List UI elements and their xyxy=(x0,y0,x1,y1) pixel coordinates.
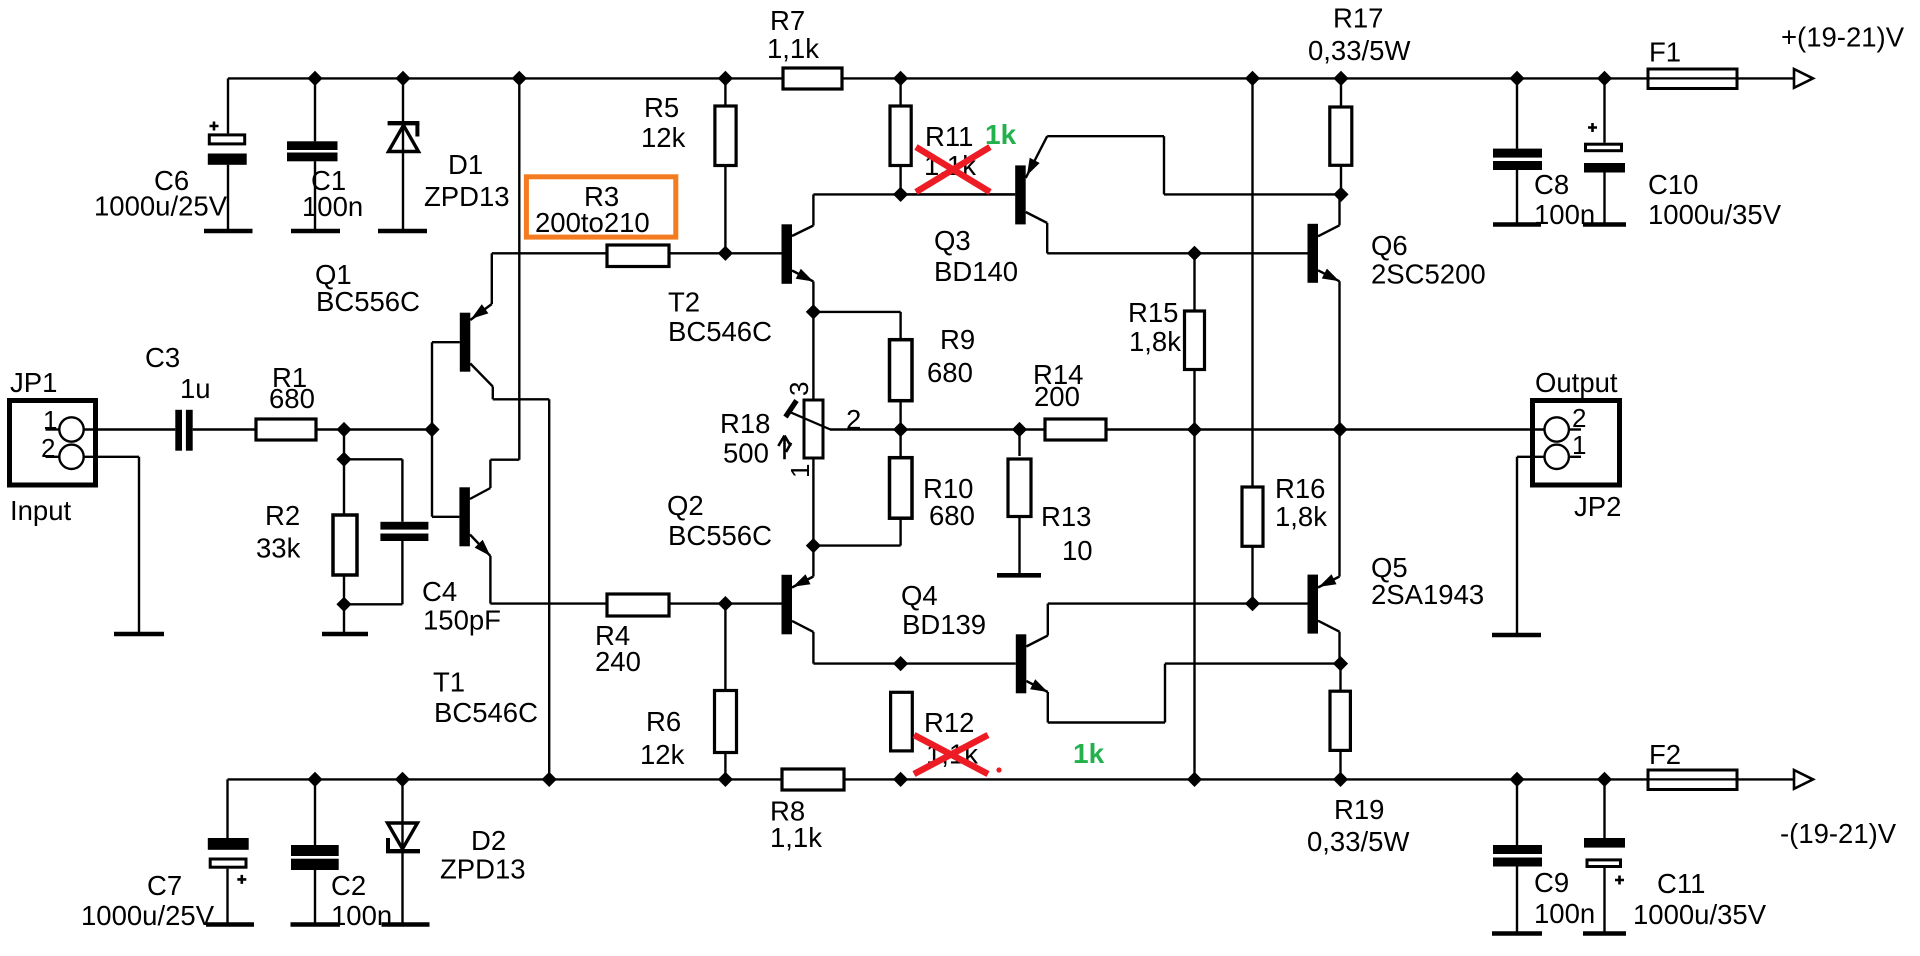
svg-text:680: 680 xyxy=(927,357,973,388)
svg-text:2: 2 xyxy=(1572,403,1586,433)
svg-text:C10: C10 xyxy=(1648,169,1698,200)
svg-text:R9: R9 xyxy=(940,324,975,355)
svg-text:680: 680 xyxy=(269,383,315,414)
svg-text:R7: R7 xyxy=(770,5,805,36)
svg-text:Output: Output xyxy=(1535,367,1618,398)
svg-text:2SC5200: 2SC5200 xyxy=(1371,259,1486,290)
svg-text:1000u/35V: 1000u/35V xyxy=(1633,899,1767,930)
svg-text:1: 1 xyxy=(1572,430,1586,460)
svg-text:R19: R19 xyxy=(1334,794,1384,825)
svg-text:1,8k: 1,8k xyxy=(1275,501,1327,532)
svg-text:1000u/25V: 1000u/25V xyxy=(81,900,215,931)
svg-text:R12: R12 xyxy=(924,707,974,738)
svg-text:200: 200 xyxy=(1034,381,1080,412)
svg-text:100n: 100n xyxy=(1534,199,1595,230)
svg-text:1: 1 xyxy=(785,464,815,478)
svg-text:2: 2 xyxy=(846,404,861,435)
svg-text:R18: R18 xyxy=(720,408,770,439)
svg-text:C9: C9 xyxy=(1534,867,1569,898)
svg-text:C11: C11 xyxy=(1657,868,1705,899)
svg-text:+(19-21)V: +(19-21)V xyxy=(1781,22,1905,53)
svg-text:R5: R5 xyxy=(644,92,679,123)
svg-text:1: 1 xyxy=(43,405,57,435)
svg-text:BC556C: BC556C xyxy=(668,520,772,551)
svg-text:F2: F2 xyxy=(1649,739,1681,770)
svg-text:Q4: Q4 xyxy=(901,580,938,611)
svg-text:10: 10 xyxy=(1062,535,1093,566)
svg-text:R13: R13 xyxy=(1041,501,1091,532)
svg-text:F1: F1 xyxy=(1649,37,1681,68)
svg-text:R15: R15 xyxy=(1128,297,1178,328)
svg-text:680: 680 xyxy=(929,500,975,531)
svg-text:Q6: Q6 xyxy=(1371,230,1408,261)
svg-text:100n: 100n xyxy=(302,191,363,222)
svg-text:BD139: BD139 xyxy=(902,609,986,640)
svg-text:0,33/5W: 0,33/5W xyxy=(1307,826,1409,857)
svg-text:1000u/35V: 1000u/35V xyxy=(1648,199,1782,230)
svg-text:12k: 12k xyxy=(640,739,685,770)
svg-text:150pF: 150pF xyxy=(423,605,501,636)
svg-text:1,1k: 1,1k xyxy=(767,33,819,64)
svg-text:C8: C8 xyxy=(1534,169,1569,200)
svg-text:1000u/25V: 1000u/25V xyxy=(94,191,228,222)
svg-text:-(19-21)V: -(19-21)V xyxy=(1780,818,1897,849)
svg-text:1k: 1k xyxy=(1073,738,1105,769)
svg-text:C2: C2 xyxy=(331,870,366,901)
svg-text:1u: 1u xyxy=(180,373,211,404)
svg-text:BC546C: BC546C xyxy=(668,316,772,347)
svg-text:500: 500 xyxy=(723,438,769,469)
svg-text:100n: 100n xyxy=(331,900,392,931)
svg-text:Q2: Q2 xyxy=(667,490,704,521)
svg-text:C4: C4 xyxy=(422,576,457,607)
svg-text:1,1k: 1,1k xyxy=(770,822,822,853)
svg-text:R16: R16 xyxy=(1275,473,1325,504)
svg-text:3: 3 xyxy=(784,382,814,396)
svg-text:2: 2 xyxy=(41,433,55,463)
svg-text:200to210: 200to210 xyxy=(535,207,650,238)
svg-text:ZPD13: ZPD13 xyxy=(424,181,510,212)
svg-text:240: 240 xyxy=(595,646,641,677)
svg-text:1,8k: 1,8k xyxy=(1129,326,1181,357)
svg-text:33k: 33k xyxy=(256,533,301,564)
svg-text:T1: T1 xyxy=(433,667,465,698)
svg-text:ZPD13: ZPD13 xyxy=(440,854,526,885)
svg-text:C3: C3 xyxy=(145,342,180,373)
svg-text:12k: 12k xyxy=(641,122,686,153)
svg-text:BC556C: BC556C xyxy=(316,286,420,317)
svg-text:2SA1943: 2SA1943 xyxy=(1371,579,1484,610)
svg-text:Q3: Q3 xyxy=(934,225,971,256)
svg-text:100n: 100n xyxy=(1534,898,1595,929)
svg-text:JP1: JP1 xyxy=(10,367,57,398)
svg-text:R11: R11 xyxy=(925,121,973,152)
svg-text:R6: R6 xyxy=(646,706,681,737)
svg-text:R17: R17 xyxy=(1333,3,1383,34)
svg-text:D2: D2 xyxy=(471,825,506,856)
svg-text:BD140: BD140 xyxy=(934,256,1018,287)
svg-text:1k: 1k xyxy=(985,119,1017,150)
svg-text:BC546C: BC546C xyxy=(434,697,538,728)
svg-text:C7: C7 xyxy=(147,870,182,901)
svg-text:R2: R2 xyxy=(265,500,300,531)
svg-text:JP2: JP2 xyxy=(1574,491,1621,522)
svg-text:T2: T2 xyxy=(668,287,700,318)
svg-text:D1: D1 xyxy=(448,149,483,180)
svg-text:0,33/5W: 0,33/5W xyxy=(1308,35,1410,66)
svg-text:Input: Input xyxy=(10,495,72,526)
